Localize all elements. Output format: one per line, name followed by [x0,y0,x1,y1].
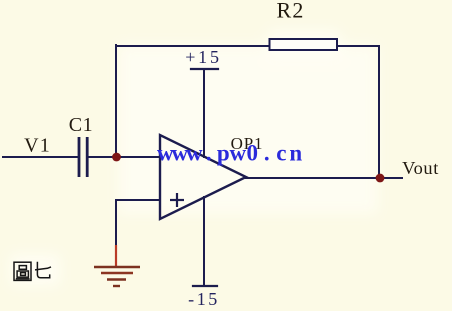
svg-text:.: . [206,141,212,166]
svg-text:V1: V1 [24,135,51,157]
svg-text:p: p [217,141,230,166]
svg-text:w: w [229,141,246,166]
svg-text:C1: C1 [69,114,94,136]
svg-text:w: w [186,141,203,166]
svg-text:-15: -15 [188,289,220,309]
svg-text:.: . [264,141,270,166]
svg-text:R2: R2 [276,0,304,22]
svg-text:c: c [276,141,286,166]
svg-text:Vout: Vout [402,158,439,178]
svg-text:n: n [289,141,302,166]
svg-text:0: 0 [247,141,259,166]
svg-text:+15: +15 [185,47,222,67]
